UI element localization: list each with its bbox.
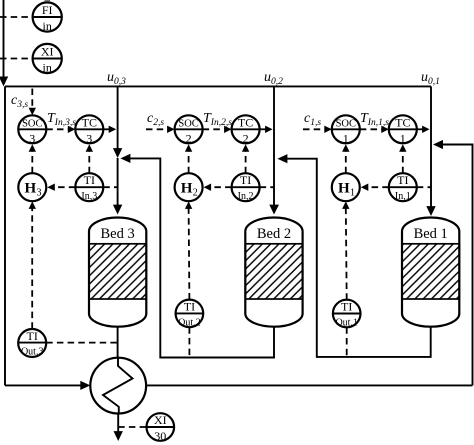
- svg-text:c3,s: c3,s: [11, 93, 28, 110]
- svg-text:TIn,3,s: TIn,3,s: [47, 111, 76, 128]
- heat exchanger E1: [90, 358, 146, 414]
- wire dashed SOC3 to TC3: [46, 126, 75, 133]
- svg-text:TC: TC: [395, 115, 410, 129]
- wire dashed TI In2 tap to pipe: [260, 186, 274, 188]
- instrument TI Out2: [176, 299, 204, 328]
- svg-text:In,3: In,3: [81, 191, 97, 202]
- tick above FI: [45, 0, 51, 1]
- wire u03 branch lower into Bed 3: [113, 158, 122, 215]
- instrument SOC 1: [332, 115, 360, 145]
- wire dashed TI Out2 up to H2: [185, 201, 192, 299]
- wire feed line top left: [0, 0, 8, 86]
- svg-text:1: 1: [400, 131, 406, 145]
- wire recycle arrow into u01 line: [433, 140, 443, 149]
- wire dashed TC1 to pipe: [417, 126, 430, 133]
- vessel Bed 3: [89, 218, 146, 327]
- wire dashed TI In1 up to TC1: [399, 144, 406, 173]
- svg-text:3: 3: [37, 188, 42, 199]
- wire dashed TI Out1 tap down to pipe: [346, 327, 348, 357]
- wire dashed c2s into SOC2: [146, 126, 175, 133]
- svg-text:In,1: In,1: [395, 191, 411, 202]
- controller H3: [18, 173, 46, 201]
- svg-text:3: 3: [86, 131, 92, 145]
- wire exchanger outlet to right edge: [146, 384, 472, 386]
- instrument XI 30: [147, 413, 175, 443]
- instrument TI Out3: [18, 329, 46, 358]
- wire right recycle riser: [441, 145, 473, 386]
- svg-text:XI: XI: [41, 44, 54, 58]
- wire dashed TI In3 to H3: [47, 184, 75, 191]
- svg-text:TI: TI: [240, 173, 251, 187]
- instrument SOC 3: [18, 115, 46, 145]
- wire dashed TI In3 up to TC3: [86, 144, 93, 173]
- wire dashed SOC2 to TC2: [203, 126, 232, 133]
- svg-text:Bed 2: Bed 2: [257, 226, 291, 242]
- svg-text:In,2: In,2: [238, 191, 254, 202]
- svg-text:TI: TI: [397, 173, 408, 187]
- svg-text:Bed 1: Bed 1: [414, 226, 448, 242]
- svg-text:2: 2: [243, 131, 249, 145]
- wire dashed TI In1 to H1: [361, 184, 389, 191]
- wire dashed c3s into SOC3: [29, 89, 36, 116]
- wire Bed1 outlet recycle to u02: [277, 154, 430, 357]
- wire dashed TI In2 to H2: [204, 184, 232, 191]
- svg-text:1: 1: [343, 131, 349, 145]
- wire dashed TI Out1 up to H1: [342, 201, 349, 299]
- svg-text:TIn,1,s: TIn,1,s: [360, 111, 389, 128]
- svg-text:SOC: SOC: [178, 119, 198, 130]
- wire dashed TI In3 tap to pipe: [103, 186, 117, 188]
- instrument TI Out1: [333, 300, 361, 329]
- svg-text:TI: TI: [341, 300, 352, 314]
- svg-text:u0,3: u0,3: [107, 70, 126, 87]
- wire left box edge: [4, 86, 6, 385]
- wire dashed TI Out3 up to H3: [29, 201, 36, 328]
- svg-text:TI: TI: [27, 329, 38, 343]
- instrument XI in: [33, 44, 62, 75]
- svg-text:3: 3: [29, 131, 35, 145]
- svg-text:c2,s: c2,s: [147, 111, 164, 128]
- wire dashed TC2 to pipe: [260, 126, 273, 133]
- wire dashed TI Out3 tap to pipe: [46, 342, 117, 344]
- wire bottom line into exchanger: [5, 381, 90, 390]
- svg-text:TI: TI: [84, 173, 95, 187]
- svg-text:u0,2: u0,2: [264, 70, 283, 87]
- wire dashed tap to FI: [0, 16, 33, 18]
- instrument TI In3: [75, 173, 103, 202]
- svg-text:Out,1: Out,1: [335, 317, 358, 328]
- wire Bed3 outlet to exchanger: [117, 327, 119, 358]
- wire dashed c1s into SOC1: [303, 126, 332, 133]
- svg-text:1: 1: [350, 188, 355, 199]
- vessel Bed 1: [402, 218, 459, 327]
- svg-text:in: in: [43, 61, 52, 75]
- controller H1: [332, 173, 360, 201]
- svg-text:SOC: SOC: [22, 119, 42, 130]
- wire dashed H1 up to SOC1: [342, 144, 349, 173]
- svg-text:c1,s: c1,s: [304, 111, 321, 128]
- svg-text:XI: XI: [154, 413, 167, 427]
- svg-text:TC: TC: [238, 115, 253, 129]
- wire dashed H3 up to SOC3: [29, 144, 36, 173]
- wire Bed2 outlet recycle to u03: [120, 154, 274, 358]
- instrument TC 2: [232, 115, 260, 145]
- instrument TI In2: [232, 173, 260, 202]
- svg-text:SOC: SOC: [336, 119, 356, 130]
- wire u03 branch upper: [113, 86, 122, 158]
- svg-text:TC: TC: [82, 115, 97, 129]
- controller H2: [175, 173, 203, 201]
- wire dashed tap to XI: [0, 58, 33, 60]
- svg-text:Out,2: Out,2: [178, 317, 201, 328]
- svg-text:H: H: [181, 181, 193, 197]
- wire dashed tap to XI 30: [118, 426, 146, 428]
- wire dashed TC3 to pipe: [103, 126, 116, 133]
- svg-text:Bed 3: Bed 3: [100, 226, 134, 242]
- svg-text:H: H: [25, 181, 37, 197]
- instrument TC 1: [389, 115, 417, 145]
- svg-text:2: 2: [193, 188, 198, 199]
- svg-text:FI: FI: [42, 3, 53, 17]
- svg-text:30: 30: [154, 429, 166, 443]
- instrument TI In1: [389, 173, 417, 202]
- svg-text:in: in: [43, 19, 52, 33]
- wire dashed SOC1 to TC1: [360, 126, 389, 133]
- svg-text:TI: TI: [184, 299, 195, 313]
- wire dashed TI Out2 tap down to pipe: [188, 327, 190, 357]
- instrument SOC 2: [175, 115, 203, 145]
- svg-text:2: 2: [186, 131, 192, 145]
- svg-text:u0,1: u0,1: [421, 70, 440, 87]
- wire u01 branch: [426, 86, 435, 216]
- svg-text:Out,3: Out,3: [21, 347, 44, 358]
- wire top header line: [5, 85, 431, 87]
- vessel Bed 2: [245, 218, 302, 327]
- wire dashed H2 up to SOC2: [185, 144, 192, 173]
- wire u02 branch: [269, 86, 279, 214]
- svg-text:H: H: [338, 181, 350, 197]
- wire exchanger outlet down: [114, 413, 123, 441]
- svg-text:TIn,2,s: TIn,2,s: [203, 111, 232, 128]
- wire dashed TI In2 up to TC2: [242, 144, 249, 173]
- wire dashed TI In1 tap to pipe: [417, 186, 431, 188]
- instrument TC 3: [75, 115, 103, 145]
- instrument FI in: [33, 2, 62, 33]
